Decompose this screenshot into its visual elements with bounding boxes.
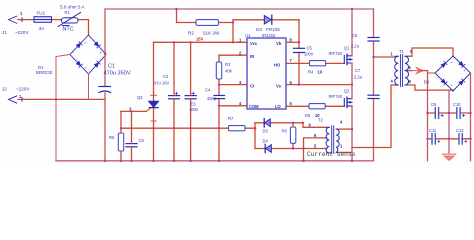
capacitor C4 xyxy=(214,96,225,99)
svg-text:Q1: Q1 xyxy=(344,46,350,51)
wire pin2 Rt xyxy=(219,54,247,56)
svg-text:15V: 15V xyxy=(196,37,204,42)
svg-text:Vcc: Vcc xyxy=(250,41,258,46)
resistor R4 xyxy=(310,61,326,66)
resistor R7 xyxy=(229,126,246,131)
wire top +DC rail xyxy=(105,8,374,10)
svg-text:Rt: Rt xyxy=(250,54,255,59)
junction row1 left xyxy=(426,112,428,114)
svg-text:D3: D3 xyxy=(263,129,269,134)
resistor R2 xyxy=(196,20,219,26)
svg-text:2.2u: 2.2u xyxy=(351,44,359,49)
svg-text:R8: R8 xyxy=(282,129,288,134)
junction Vcc rail xyxy=(232,41,234,43)
svg-text:R4: R4 xyxy=(308,70,314,75)
junction Vs C5 xyxy=(298,83,300,85)
junction bottom rail C2 xyxy=(173,160,176,163)
capacitor C1 xyxy=(99,87,111,93)
svg-text:R2: R2 xyxy=(188,31,194,36)
svg-text:100n: 100n xyxy=(304,52,314,57)
svg-text:B4: B4 xyxy=(424,80,430,85)
capacitor C12 xyxy=(459,134,462,144)
svg-text:C1: C1 xyxy=(108,64,115,70)
svg-text:C2: C2 xyxy=(163,74,169,79)
svg-text:E3: E3 xyxy=(191,102,197,107)
svg-text:~220V: ~220V xyxy=(16,87,30,92)
svg-text:IR2153: IR2153 xyxy=(262,33,276,38)
junction bottom rail C8 xyxy=(130,160,133,163)
E3 vertical wire xyxy=(190,42,192,161)
svg-text:BRIDGE: BRIDGE xyxy=(36,70,53,75)
wire C6 C7 chain x373.5 xyxy=(373,9,375,161)
wire timing vertical x219 xyxy=(218,55,220,161)
thermistor R1 NTC xyxy=(58,13,81,27)
junction bottom rail R6 xyxy=(120,160,123,163)
capacitor C8 xyxy=(126,144,137,147)
svg-text:C10: C10 xyxy=(453,102,461,107)
junction Q2 source T2 pin4 xyxy=(351,128,353,130)
junction +rail Q1 xyxy=(351,8,354,11)
output bridge B4 outline xyxy=(435,56,471,91)
Q3 anode tick xyxy=(151,94,157,96)
B4 diode top-right xyxy=(459,61,465,67)
svg-text:J1: J1 xyxy=(2,30,7,35)
wire Vcc drop x233 xyxy=(232,20,234,43)
junction Ct node xyxy=(218,83,220,85)
diode D2 FR105 xyxy=(264,15,272,24)
transformer T2 core xyxy=(332,126,334,154)
capacitor C10 xyxy=(457,108,460,118)
svg-text:FR105: FR105 xyxy=(266,27,280,32)
junction COM rail R6 xyxy=(120,127,122,129)
E3 plus mark xyxy=(192,92,195,95)
svg-text:5.6 ohm 5 A: 5.6 ohm 5 A xyxy=(60,5,85,10)
capacitor C2 electrolytic xyxy=(169,96,180,99)
wire output mid bus x449 xyxy=(448,90,450,153)
svg-text:IRF740: IRF740 xyxy=(329,51,343,56)
svg-text:NTC: NTC xyxy=(63,27,74,33)
wire J2 neutral input xyxy=(18,98,105,100)
wire T2 pin1 to bus xyxy=(339,151,352,153)
diode D3 xyxy=(264,119,270,127)
junction bottom rail Q3 xyxy=(152,160,155,163)
ground symbol output xyxy=(443,154,456,160)
resistor R6 xyxy=(118,133,123,151)
junction T2 pin9 tap xyxy=(302,122,304,124)
junction bottom rail C1 xyxy=(104,160,107,163)
wire Q1 source to Vs xyxy=(351,63,353,85)
capacitor C6 xyxy=(368,38,379,42)
wire D2 anode-cathode y19.8 xyxy=(233,19,299,21)
C11 plus mark xyxy=(438,140,440,142)
Q3 gate wire xyxy=(121,110,146,112)
wire bottom negative rail xyxy=(56,160,374,162)
svg-text:C9: C9 xyxy=(431,102,437,107)
wire T1 primary top xyxy=(374,56,396,58)
svg-text:HO: HO xyxy=(274,63,281,68)
B4 diode top-left xyxy=(441,61,447,67)
svg-text:~220V: ~220V xyxy=(15,30,29,35)
svg-text:R6: R6 xyxy=(109,135,115,140)
svg-text:C6: C6 xyxy=(352,33,358,38)
junction COM node xyxy=(218,105,220,107)
svg-text:FU1: FU1 xyxy=(37,11,46,16)
fuse FU1 xyxy=(34,17,52,23)
C2 vertical wire xyxy=(173,42,175,161)
wire COM rail y128.2 xyxy=(121,127,255,129)
C12 plus mark xyxy=(465,140,467,142)
junction bottom rail T2 pin6 xyxy=(302,160,305,163)
svg-text:T2: T2 xyxy=(318,118,324,123)
svg-text:51K 2W: 51K 2W xyxy=(203,31,220,36)
svg-text:C11: C11 xyxy=(429,128,437,133)
svg-text:C7: C7 xyxy=(355,68,361,73)
svg-text:J2: J2 xyxy=(2,87,7,92)
svg-text:LO: LO xyxy=(275,104,282,109)
wire bridge minus drop xyxy=(88,74,90,99)
junction R8 top xyxy=(292,122,294,124)
junction neutral J2 xyxy=(55,98,57,100)
svg-text:R7: R7 xyxy=(228,116,234,121)
wire pin6 Vs xyxy=(286,84,352,86)
capacitor C5 xyxy=(294,48,305,52)
wire Vb chain x299 xyxy=(298,20,300,85)
junction COM rail E3 xyxy=(189,127,191,129)
junction row1 right xyxy=(469,112,471,114)
Q3 cathode tick xyxy=(151,120,156,122)
wire Q1 drain xyxy=(351,9,353,56)
wire filter row1 y113 xyxy=(428,112,471,114)
junction +rail R2 xyxy=(175,8,178,11)
svg-text:~: ~ xyxy=(84,66,87,71)
junction pin6 line D4 row xyxy=(302,147,304,149)
D1 diode bottom-left xyxy=(76,61,82,67)
Q3 gate diagonal xyxy=(146,108,151,112)
wire arrow to minus bus xyxy=(420,70,428,72)
junction row1 mid xyxy=(448,112,450,114)
svg-text:D4: D4 xyxy=(263,139,269,144)
junction COM rail C2 xyxy=(173,127,175,129)
B4 diode bottom-left xyxy=(441,79,447,85)
wire T1 pin5 to output bridge top xyxy=(408,48,453,56)
junction R8 bottom xyxy=(292,147,294,149)
svg-text:Vs: Vs xyxy=(276,84,282,89)
arrow output tap xyxy=(413,68,424,74)
transformer T1 left winding xyxy=(395,56,399,85)
R8 leads xyxy=(292,123,294,149)
wire output minus bus x427.5 xyxy=(427,71,429,161)
wire T2 pin6 xyxy=(304,138,327,161)
wire filter row2 y138.8 xyxy=(428,138,471,140)
svg-text:470u 350V: 470u 350V xyxy=(104,71,131,77)
junction bottom rail Q2 xyxy=(351,160,354,163)
svg-text:C5: C5 xyxy=(307,46,313,51)
junction Vb xyxy=(298,41,300,43)
wire D4 row y148.5 xyxy=(255,148,327,150)
junction R2 out xyxy=(232,21,234,23)
wire J1 live input xyxy=(18,20,89,35)
D1 diode top-right xyxy=(94,42,100,48)
wire T1 pin6 stub xyxy=(408,70,412,72)
svg-text:R1: R1 xyxy=(65,10,71,15)
junction gate C8 xyxy=(130,110,132,112)
svg-text:40K: 40K xyxy=(225,69,233,74)
bridge rectifier D1 outline xyxy=(70,35,106,74)
svg-text:C12: C12 xyxy=(456,128,464,133)
svg-text:47u 16V: 47u 16V xyxy=(154,81,170,86)
svg-text:R5: R5 xyxy=(305,113,311,118)
wire +DC vertical x105 xyxy=(104,9,106,161)
resistor R8 xyxy=(290,127,295,143)
diode D4 xyxy=(265,144,271,152)
connector J2 xyxy=(9,96,23,103)
svg-text:Q3: Q3 xyxy=(137,95,143,100)
wire T2 pin4 to Q2 source xyxy=(339,128,352,130)
svg-text:C8: C8 xyxy=(139,138,145,143)
transformer T2 left winding xyxy=(326,127,329,153)
C2 plus mark xyxy=(175,92,178,95)
connector J1 xyxy=(9,16,23,23)
capacitor E3 electrolytic xyxy=(185,96,196,99)
svg-text:330p: 330p xyxy=(207,96,217,101)
svg-text:D2: D2 xyxy=(256,27,262,32)
svg-text:Q2: Q2 xyxy=(344,89,350,94)
wire R2 branch from +rail xyxy=(177,9,234,23)
wire pin3 Ct xyxy=(219,84,247,86)
wire bridge plus jog xyxy=(105,54,106,55)
svg-text:100n: 100n xyxy=(189,107,199,112)
wire bridge left jog xyxy=(428,72,436,74)
D1 diode bottom-right xyxy=(94,61,100,67)
svg-text:Vb: Vb xyxy=(276,41,282,46)
svg-text:10: 10 xyxy=(318,70,323,75)
MOSFET Q2 xyxy=(344,97,352,107)
svg-text:COM: COM xyxy=(249,104,259,109)
svg-text:+: + xyxy=(463,68,466,73)
resistor R5 xyxy=(309,104,325,109)
capacitor C7 xyxy=(368,95,379,98)
wire sense left bar x255 xyxy=(254,123,256,149)
wire 15V rail y42.3 xyxy=(154,41,248,43)
capacitor C11 xyxy=(432,134,435,144)
junction 15V C2 xyxy=(173,41,175,43)
C9 plus mark xyxy=(441,114,443,116)
svg-text:~: ~ xyxy=(450,83,453,88)
svg-text:2.2u: 2.2u xyxy=(354,75,362,80)
svg-text:10: 10 xyxy=(315,113,320,118)
wire Q2 drain to Vs xyxy=(351,85,353,99)
svg-text:R3: R3 xyxy=(225,62,231,67)
R6 vertical wire xyxy=(120,111,122,160)
resistor R3 xyxy=(216,62,221,79)
wire pin8 Vb xyxy=(286,41,299,43)
wire pin7 HO xyxy=(286,62,344,64)
D1 diode top-left xyxy=(76,42,82,48)
transformer T1 right winding xyxy=(405,56,409,85)
thyristor Q3 xyxy=(149,101,159,107)
junction row2 mid xyxy=(448,138,450,140)
junction R7 to sense bar xyxy=(254,127,257,130)
svg-text:T1: T1 xyxy=(399,49,405,54)
transformer T1 core xyxy=(401,55,403,87)
junction row2 right xyxy=(469,138,471,140)
svg-text:C4: C4 xyxy=(205,88,211,93)
C10 plus mark xyxy=(463,114,465,116)
IC U1 IR2153 body xyxy=(247,38,286,109)
thyristor Q3 vertical wire xyxy=(153,42,155,161)
junction COM rail Q3 xyxy=(152,127,154,129)
transformer T2 right winding xyxy=(336,129,339,152)
svg-text:Ct: Ct xyxy=(250,84,255,89)
junction C6 C7 mid xyxy=(372,56,374,58)
MOSFET Q1 xyxy=(344,54,352,64)
B4 diode bottom-right xyxy=(459,79,465,85)
wire T1 pin8 to bridge bottom xyxy=(408,85,453,91)
wire neutral to bridge AC left xyxy=(56,55,70,161)
wire Q2 source down xyxy=(351,106,353,161)
junction bridge plus xyxy=(104,52,107,55)
junction 15V E3 xyxy=(189,41,191,43)
wire pin5 LO xyxy=(286,105,344,107)
wire output plus bus x470.5 xyxy=(470,73,472,161)
junction row2 left xyxy=(426,138,428,140)
svg-text:U1: U1 xyxy=(245,33,251,38)
wire T1 pin4 return xyxy=(352,85,395,148)
junction bottom rail E3 xyxy=(189,160,192,163)
wire pin4 COM xyxy=(219,105,247,107)
junction bottom rail C4 xyxy=(218,160,221,163)
svg-text:~: ~ xyxy=(450,60,453,65)
wire T2 pin9 xyxy=(303,123,327,128)
junction Vs halfbridge xyxy=(351,83,353,85)
svg-text:~: ~ xyxy=(84,41,87,46)
junction COM rail C4 xyxy=(218,127,220,129)
svg-text:IRF740: IRF740 xyxy=(329,94,343,99)
wire D3 row y122.8 xyxy=(255,122,303,124)
C8 vertical wire xyxy=(131,111,133,160)
svg-text:Current sense: Current sense xyxy=(307,151,356,158)
svg-text:+: + xyxy=(100,50,103,55)
svg-text:3A: 3A xyxy=(39,26,46,31)
capacitor C9 xyxy=(435,108,438,118)
